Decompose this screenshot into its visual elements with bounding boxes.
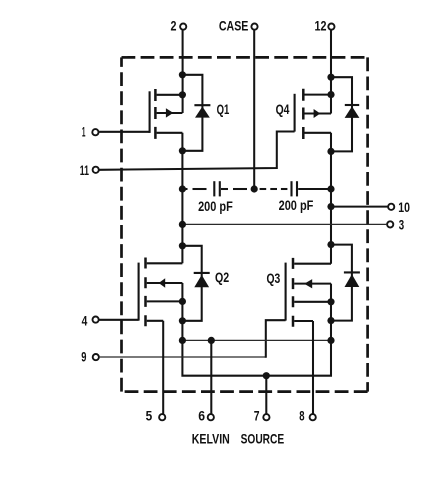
pin 6 terminal xyxy=(198,409,214,424)
wire: pin 7 up to bottom source rail xyxy=(265,376,267,414)
wire: source tie line between left and right buses xyxy=(182,339,331,341)
junction: Q1 drain / diode top xyxy=(179,71,186,78)
Q2 drain stub xyxy=(147,262,183,264)
svg-text:11: 11 xyxy=(80,163,89,178)
Q3 body stub with arrow xyxy=(294,283,331,285)
junction: source tie left xyxy=(179,337,186,344)
Q2 kelvin source stub xyxy=(147,320,164,322)
svg-text:Q1: Q1 xyxy=(217,102,230,117)
pin 9 terminal xyxy=(81,349,99,364)
Q2 gate bar xyxy=(138,263,140,321)
svg-text:Q3: Q3 xyxy=(267,271,281,286)
svg-text:2: 2 xyxy=(171,19,177,34)
Q4 channel segments xyxy=(302,89,305,139)
Q1 body stub with arrow xyxy=(157,112,183,114)
Q4 gate bar xyxy=(294,94,296,132)
transistor Q4 (P-channel MOSFET, top right) xyxy=(295,89,331,139)
Q4 source stub xyxy=(305,132,332,134)
capacitor C2 (200 pF, right) xyxy=(260,181,331,196)
junction: Q3 source stub xyxy=(327,298,334,305)
wire: Q2 source bus down, bottom source rail, up to Q3 source bus xyxy=(182,283,331,376)
KELVIN SOURCE label xyxy=(192,432,284,447)
junction: C2 right xyxy=(327,185,334,192)
junction: Q3 drain / diode top xyxy=(327,241,334,248)
wire: pin 1 to Q1 gate xyxy=(99,131,150,133)
Q1 drain stub xyxy=(157,94,183,96)
junction: pin 6 tap xyxy=(208,337,215,344)
Q3 drain stub xyxy=(294,263,331,265)
svg-text:CASE: CASE xyxy=(219,19,249,34)
transistor Q2 (N-channel MOSFET, bottom left) xyxy=(139,258,183,327)
junction: Q2 diode bottom xyxy=(179,317,186,324)
junction: pin 7 tap on source rail xyxy=(263,372,270,379)
svg-text:200 pF: 200 pF xyxy=(198,199,233,214)
Q2 source stub xyxy=(147,300,183,302)
wire: pin 6 up to source tie line xyxy=(210,340,212,413)
svg-text:10: 10 xyxy=(398,200,410,215)
wire: pin 12 down to drain node of Q4 xyxy=(330,30,332,114)
junction: pin 3 tap on left bus xyxy=(179,221,186,228)
junction: Q2 source stub xyxy=(179,298,186,305)
Q3 kelvin source stub xyxy=(294,320,313,322)
pin 11 terminal xyxy=(80,163,99,178)
pin 12 terminal xyxy=(315,19,335,34)
Q1 source stub xyxy=(157,132,183,134)
Q4 body stub with arrow xyxy=(305,112,332,114)
junction: Q4 drain / diode top xyxy=(327,74,334,81)
CASE terminal xyxy=(219,19,258,34)
transistor Q3 (N-channel MOSFET, bottom right) xyxy=(286,258,331,327)
wire: pin 10 to right bus xyxy=(331,206,388,208)
diode (body) of Q1 xyxy=(182,75,210,151)
svg-text:4: 4 xyxy=(82,313,88,328)
pin 8 terminal xyxy=(299,409,316,424)
svg-text:7: 7 xyxy=(254,409,260,424)
svg-text:8: 8 xyxy=(299,409,305,424)
svg-text:1: 1 xyxy=(82,125,86,140)
pin 10 terminal xyxy=(388,200,410,215)
junction: CASE to capacitors xyxy=(251,185,258,192)
junction: source tie right xyxy=(327,337,334,344)
svg-text:KELVIN: KELVIN xyxy=(192,432,230,447)
capacitor C1 (200 pF, left) xyxy=(182,181,247,196)
junction: pin 10 tap xyxy=(327,203,334,210)
Q2 body stub with arrow xyxy=(147,282,183,284)
pin 5 terminal xyxy=(146,409,166,424)
transistor Q1 (P-channel MOSFET, top left) xyxy=(150,89,183,139)
svg-text:9: 9 xyxy=(81,349,86,364)
Q2 channel segments xyxy=(144,258,147,327)
svg-text:5: 5 xyxy=(146,409,153,424)
wire: pin 4 to Q2 gate xyxy=(99,319,139,321)
wire: pin 3 across to left bus xyxy=(182,223,387,225)
pin 3 terminal xyxy=(387,218,404,233)
junction: Q1 source / diode bottom xyxy=(179,147,186,154)
Q3 channel segments xyxy=(292,258,295,327)
diode (body) of Q2 xyxy=(182,246,209,321)
svg-text:12: 12 xyxy=(315,19,327,34)
junction: Q4 drain stub xyxy=(327,91,334,98)
junction: Q2 drain / diode top xyxy=(179,242,186,249)
Q4 drain stub xyxy=(305,94,332,96)
wire: pin 8 up to Q3 kelvin source stub xyxy=(312,321,314,414)
Q3 gate bar xyxy=(285,263,287,321)
wire: pin 2 down to drain node of Q1 xyxy=(182,30,184,113)
pin 4 terminal xyxy=(82,313,99,328)
svg-text:3: 3 xyxy=(399,218,405,233)
pin 7 terminal xyxy=(254,409,270,424)
pin 2 terminal xyxy=(171,19,187,34)
svg-text:6: 6 xyxy=(198,409,205,424)
junction: Q4 source / diode bottom xyxy=(327,148,334,155)
junction: Q1 drain stub xyxy=(179,91,186,98)
wire: pin 5 up to Q2 kelvin source stub xyxy=(162,321,164,414)
Q1 gate bar xyxy=(149,91,151,133)
Q1 channel segments xyxy=(154,89,157,139)
package case outline (dashed) xyxy=(122,57,368,391)
svg-text:Q4: Q4 xyxy=(276,102,290,117)
wire: left drain/source bus from Q1 source down to Q2 drain xyxy=(181,133,183,263)
wire: CASE lead down to capacitor midpoint xyxy=(253,30,255,189)
diode (body) of Q3 xyxy=(331,245,360,321)
wire: right bus from Q4 source down to Q3 drain xyxy=(330,133,332,264)
junction: C1 left xyxy=(179,185,186,192)
junction: Q3 diode bottom xyxy=(327,317,334,324)
Q3 source stub xyxy=(294,301,331,303)
wire: pin 9 to Q3 gate xyxy=(99,356,266,358)
svg-text:SOURCE: SOURCE xyxy=(241,432,285,447)
svg-text:Q2: Q2 xyxy=(215,270,229,285)
diode (body) of Q4 xyxy=(331,77,359,151)
svg-text:200 pF: 200 pF xyxy=(279,198,314,213)
pin 1 terminal xyxy=(82,125,99,140)
wire: pin 11 to Q4 gate xyxy=(99,132,294,170)
